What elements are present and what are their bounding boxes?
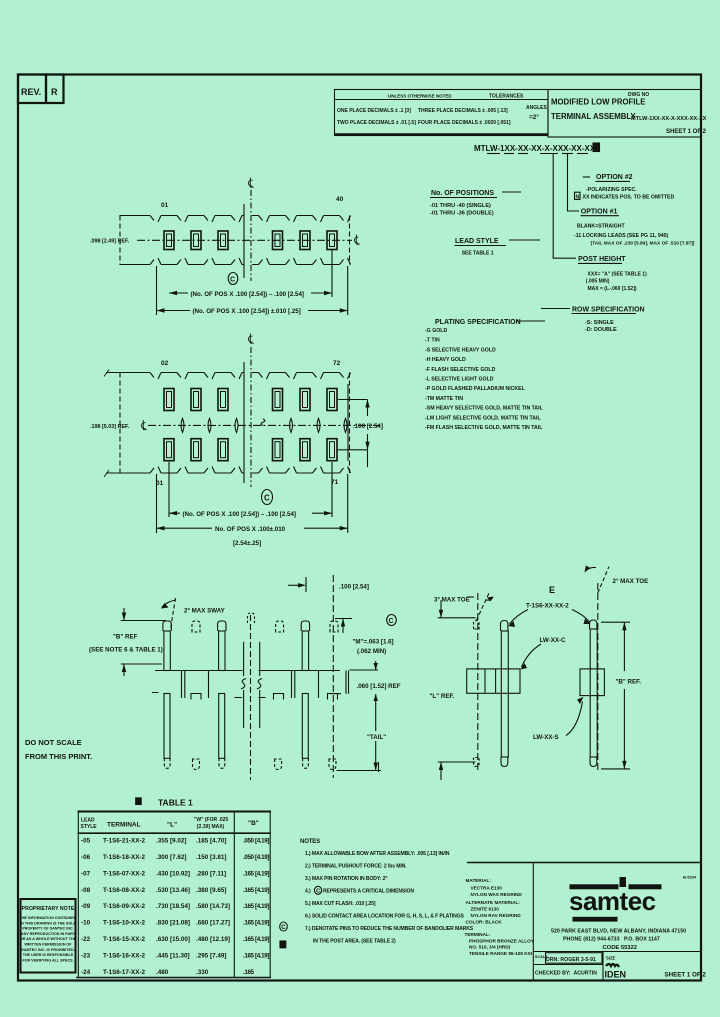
table1 [76, 798, 271, 978]
ident scribble [606, 964, 619, 967]
svg-text:.060 [1.52] REF: .060 [1.52] REF [357, 683, 401, 690]
svg-text:NYLON WAS REGRIND: NYLON WAS REGRIND [471, 892, 523, 897]
centerline symbol right [355, 235, 360, 245]
side view strip [89, 575, 401, 780]
proprietary note box [21, 899, 76, 973]
svg-text:POST HEIGHT: POST HEIGHT [578, 256, 626, 263]
svg-text:DRN: ROGER 3-5-91: DRN: ROGER 3-5-91 [546, 957, 596, 963]
callout circle right [387, 615, 397, 626]
break phantom tip [248, 613, 255, 623]
svg-text:.165: .165 [243, 969, 255, 976]
left body [467, 669, 520, 693]
svg-text:T-1S6-16-XX-2: T-1S6-16-XX-2 [103, 952, 145, 959]
svg-text:ZENITE 6130: ZENITE 6130 [471, 907, 500, 912]
tails phantom tips [193, 759, 337, 770]
svg-text:=2°: =2° [529, 113, 539, 121]
svg-text:"B" REF: "B" REF [113, 634, 138, 641]
svg-text:-08: -08 [81, 887, 91, 894]
svg-text:-01 THRU -36 (DOUBLE): -01 THRU -36 (DOUBLE) [430, 211, 494, 217]
top row pins [164, 389, 337, 411]
svg-text:-TM MATTE TIN: -TM MATTE TIN [425, 396, 463, 402]
centerline horizontal [137, 239, 352, 241]
svg-text:REV.: REV. [21, 87, 41, 97]
svg-text:LEAD: LEAD [81, 818, 95, 824]
svg-text:SIZE: SIZE [606, 956, 616, 961]
svg-text:T-1S6-17-XX-2: T-1S6-17-XX-2 [103, 969, 145, 976]
svg-text:6.) SOLID CONTACT AREA LOCATIO: 6.) SOLID CONTACT AREA LOCATION FOR G, H… [305, 914, 465, 920]
svg-text:VECTRA E130: VECTRA E130 [471, 885, 503, 890]
svg-text:.165 [4.19]: .165 [4.19] [243, 887, 269, 894]
plating callout circle [262, 490, 273, 505]
svg-text:XX INDICATES POS. TO BE OMITTE: XX INDICATES POS. TO BE OMITTED [583, 194, 675, 200]
svg-text:C: C [389, 618, 394, 625]
svg-text:3° MAX TOE: 3° MAX TOE [434, 597, 470, 604]
svg-text:.295 [7.49]: .295 [7.49] [196, 952, 226, 959]
svg-text:XXX= "A" (SEE TABLE 1): XXX= "A" (SEE TABLE 1) [588, 272, 648, 278]
svg-text:.355 [9.02]: .355 [9.02] [156, 838, 186, 845]
svg-text:T-1S6-21-XX-2: T-1S6-21-XX-2 [103, 838, 145, 845]
svg-text:.050 [4.19]: .050 [4.19] [243, 854, 269, 861]
band left/right edges [119, 216, 121, 265]
svg-text:PROPRIETARY NOTE: PROPRIETARY NOTE [22, 906, 75, 912]
svg-text:01: 01 [156, 480, 164, 487]
svg-text:REPRESENTS A CRITICAL DIMENSIO: REPRESENTS A CRITICAL DIMENSION [323, 889, 414, 895]
svg-text:-S SELECTIVE HEAVY GOLD: -S SELECTIVE HEAVY GOLD [425, 347, 496, 353]
svg-text:T-1S6-08-XX-2: T-1S6-08-XX-2 [103, 887, 145, 894]
band left/right edges [119, 373, 121, 474]
part number breakdown [425, 143, 695, 431]
svg-text:.580 [14.73]: .580 [14.73] [196, 903, 230, 910]
svg-text:.165 [4.19]: .165 [4.19] [243, 952, 269, 959]
svg-text:.380 [9.65]: .380 [9.65] [196, 887, 226, 894]
svg-text:C: C [281, 925, 286, 931]
M dim right [335, 618, 352, 620]
svg-text:T-1S6-10-XX-2: T-1S6-10-XX-2 [103, 920, 145, 927]
svg-text:[TAIL MAX OF .230 [5.89], MAX: [TAIL MAX OF .230 [5.89], MAX OF .510 [7… [591, 241, 695, 247]
svg-text:-23: -23 [81, 952, 91, 959]
body hangers and seats [182, 671, 319, 698]
header [81, 817, 259, 830]
table frame [78, 811, 272, 813]
proprietary + do not scale [20, 738, 93, 973]
svg-text:.165 [4.19]: .165 [4.19] [243, 936, 269, 943]
svg-text:MAX = (L-.060 [1.52]): MAX = (L-.060 [1.52]) [588, 286, 637, 292]
svg-text:"L" REF.: "L" REF. [430, 693, 455, 700]
svg-text:OPTION #1: OPTION #1 [581, 208, 618, 215]
circled C in note 4 [314, 886, 321, 894]
L ref dim [438, 617, 476, 619]
svg-text:.445 [11.30]: .445 [11.30] [156, 952, 190, 959]
svg-text:.165 [4.19]: .165 [4.19] [243, 920, 269, 927]
svg-text:-06: -06 [81, 854, 91, 861]
svg-text:No. OF POSITIONS: No. OF POSITIONS [431, 190, 494, 197]
svg-text:R: R [51, 87, 58, 97]
svg-text:.530 [13.46]: .530 [13.46] [156, 887, 190, 894]
view1 top single row [90, 178, 360, 316]
svg-text:.098 [2.49] REF.: .098 [2.49] REF. [90, 239, 130, 245]
band bottom edge [120, 264, 340, 266]
svg-text:THE INFORMATION CONTAINED: THE INFORMATION CONTAINED [20, 916, 77, 920]
svg-text:ONE PLACE DECIMALS ± .1 [3]: ONE PLACE DECIMALS ± .1 [3] [337, 108, 411, 114]
phantom tips on dim [474, 621, 480, 767]
right reference dashed line [332, 575, 334, 778]
svg-text:CHECKED BY: ACURTIN: CHECKED BY: ACURTIN [535, 971, 597, 977]
leader to post height [553, 154, 576, 258]
svg-text:01: 01 [161, 202, 169, 209]
svg-text:-S: SINGLE: -S: SINGLE [585, 320, 614, 326]
svg-text:(.062 MIN): (.062 MIN) [357, 648, 386, 655]
side view pins [430, 566, 649, 781]
svg-text:T-1S6-15-XX-2: T-1S6-15-XX-2 [103, 936, 145, 943]
svg-text:[2.39] MAX): [2.39] MAX) [197, 824, 225, 830]
svg-text:.300 [7.62]: .300 [7.62] [156, 854, 186, 861]
svg-text:.280 [7.11]: .280 [7.11] [196, 870, 226, 877]
svg-text:STYLE: STYLE [81, 824, 98, 830]
svg-text:"B" REF.: "B" REF. [616, 679, 642, 686]
dim1 below [331, 462, 333, 517]
svg-text:7.) DENOTATE PINS TO REDUCE TH: 7.) DENOTATE PINS TO REDUCE THE NUMBER O… [305, 926, 474, 932]
svg-text:-L SELECTIVE LIGHT GOLD: -L SELECTIVE LIGHT GOLD [425, 377, 494, 383]
svg-text:OPTION #2: OPTION #2 [596, 174, 633, 181]
svg-text:ROW SPECIFICATION: ROW SPECIFICATION [572, 307, 645, 314]
svg-text:CODE 55322: CODE 55322 [603, 945, 637, 951]
svg-text:WRITTEN PERMISSION OF: WRITTEN PERMISSION OF [24, 943, 72, 947]
svg-text:UNLESS OTHERWISE NOTED: UNLESS OTHERWISE NOTED [388, 94, 452, 99]
svg-text:PHOSPHOR BRONZE ALLOY: PHOSPHOR BRONZE ALLOY [469, 938, 535, 943]
centerline horizontal [148, 424, 380, 426]
svg-text:.100 [2.54]: .100 [2.54] [339, 583, 369, 590]
dim1 [331, 250, 333, 297]
svg-text:2° MAX SWAY: 2° MAX SWAY [184, 608, 226, 615]
pins [164, 231, 337, 250]
svg-text:NOTES: NOTES [300, 839, 320, 845]
svg-text:5.) MAX CUT FLASH: .010 [.25]: 5.) MAX CUT FLASH: .010 [.25] [305, 901, 376, 907]
view2 dual row [90, 334, 383, 548]
svg-text:.165 [4.19]: .165 [4.19] [243, 870, 269, 877]
svg-text:-H HEAVY GOLD: -H HEAVY GOLD [425, 357, 466, 363]
tolerance box [335, 90, 549, 136]
svg-text:NO. 510, 3/4 (HRD): NO. 510, 3/4 (HRD) [469, 945, 511, 950]
svg-text:TENSILE RANGE 95-105 KSI: TENSILE RANGE 95-105 KSI [469, 951, 532, 956]
svg-text:2° MAX TOE: 2° MAX TOE [613, 578, 649, 585]
svg-text:IN THE POST AREA. (SEE TABLE 2: IN THE POST AREA. (SEE TABLE 2) [313, 939, 396, 945]
svg-text:3.) MAX PIN ROTATION IN BODY:: 3.) MAX PIN ROTATION IN BODY: 2° [305, 876, 387, 882]
svg-text:-D: DOUBLE: -D: DOUBLE [585, 327, 617, 333]
svg-text:OR AS A WHOLE WITHOUT THE: OR AS A WHOLE WITHOUT THE [20, 937, 77, 941]
svg-text:(No. OF POS X .100 [2.54]) – .: (No. OF POS X .100 [2.54]) – .100 [2.54] [191, 291, 304, 298]
svg-text:SHEET 1 OF 2: SHEET 1 OF 2 [666, 129, 707, 135]
svg-text:COLOR: BLACK: COLOR: BLACK [466, 919, 503, 924]
break line [243, 362, 245, 483]
svg-text:-F FLASH SELECTIVE GOLD: -F FLASH SELECTIVE GOLD [425, 367, 496, 373]
svg-text:ALTERNATE MATERIAL:: ALTERNATE MATERIAL: [466, 900, 521, 905]
svg-text:.830 [21.08]: .830 [21.08] [156, 920, 190, 927]
svg-text:E: E [549, 585, 555, 595]
option #2 [583, 176, 590, 178]
svg-text:.680 [17.27]: .680 [17.27] [196, 920, 230, 927]
left pin [501, 621, 508, 632]
circled C flag left of note 7 [280, 922, 288, 931]
svg-text:72: 72 [333, 360, 341, 367]
svg-text:-FM FLASH SELECTIVE GOLD, MATT: -FM FLASH SELECTIVE GOLD, MATTE TIN TAIL [425, 425, 543, 431]
right row-pitch dim [347, 384, 349, 461]
svg-text:-T TIN: -T TIN [425, 338, 440, 344]
svg-text:-LM LIGHT SELECTIVE GOLD, MATT: -LM LIGHT SELECTIVE GOLD, MATTE TIN TAIL [425, 415, 541, 421]
svg-text:PROPERTY OF SAMTEC INC.: PROPERTY OF SAMTEC INC. [22, 927, 73, 931]
svg-text:TERMINAL ASSEMBLY: TERMINAL ASSEMBLY [551, 112, 636, 121]
band bottom edge [106, 472, 340, 474]
svg-text:.480: .480 [156, 969, 169, 976]
svg-text:PLATING SPECIFICATION: PLATING SPECIFICATION [435, 319, 521, 326]
svg-text:-POLARIZING SPEC.: -POLARIZING SPEC. [586, 187, 637, 193]
svg-text:DO NOT SCALE: DO NOT SCALE [25, 738, 82, 747]
B ref dim right [601, 621, 630, 623]
svg-text:-01 THRU -40 (SINGLE): -01 THRU -40 (SINGLE) [430, 203, 491, 209]
notes [280, 839, 474, 948]
svg-text:(No. OF POS X .100 [2.54]) ±.0: (No. OF POS X .100 [2.54]) ±.010 [.25] [193, 308, 301, 315]
tails solid [164, 694, 308, 769]
svg-text:-24: -24 [81, 969, 91, 976]
svg-text:.165 [4.19]: .165 [4.19] [243, 903, 269, 910]
svg-text:ANGLES: ANGLES [526, 105, 548, 111]
left assembly centerline [477, 593, 479, 773]
B ref dim left [121, 620, 166, 622]
svg-text:MODIFIED LOW PROFILE: MODIFIED LOW PROFILE [551, 98, 645, 107]
svg-text:T-1S6-09-XX-2: T-1S6-09-XX-2 [103, 903, 145, 910]
svg-text:PHONE (812) 944-6733 P.O. BO: PHONE (812) 944-6733 P.O. BOX 1147 [563, 937, 660, 943]
material + samtec [465, 863, 707, 981]
bottom row pins [164, 439, 337, 461]
break S symbols [243, 642, 245, 676]
svg-text:TABLE 1: TABLE 1 [158, 798, 193, 808]
svg-text:C: C [264, 494, 270, 503]
dim2 [156, 266, 158, 315]
samtec box [532, 863, 534, 981]
svg-text:TERMINAL: TERMINAL [107, 822, 141, 829]
svg-text:.100 [2.54]: .100 [2.54] [353, 423, 383, 430]
lens marks on centerline [181, 418, 347, 432]
svg-text:"TAIL": "TAIL" [367, 734, 386, 741]
svg-text:THREE PLACE DECIMALS ± .005 [.: THREE PLACE DECIMALS ± .005 [.13] [418, 108, 508, 114]
svg-text:.150 [3.81]: .150 [3.81] [196, 854, 226, 861]
svg-text:IN THIS DRAWING IS THE SOLE: IN THIS DRAWING IS THE SOLE [20, 921, 76, 925]
svg-text:TWO PLACE DECIMALS ± .01 [.5]: TWO PLACE DECIMALS ± .01 [.5] [337, 120, 416, 126]
svg-text:FROM THIS PRINT.: FROM THIS PRINT. [25, 752, 92, 761]
svg-text:-05: -05 [81, 838, 91, 845]
svg-text:.198 [5.03] REF.: .198 [5.03] REF. [90, 424, 130, 430]
right assembly centerline [597, 583, 599, 773]
svg-text:1.) MAX ALLOWABLE BOW AFTER AS: 1.) MAX ALLOWABLE BOW AFTER ASSEMBLY: .0… [305, 851, 450, 857]
rev box [18, 75, 64, 104]
centerline symbol top [249, 334, 254, 344]
svg-text:.430 [10.92]: .430 [10.92] [156, 870, 190, 877]
svg-text:T-1S6-18-XX-2: T-1S6-18-XX-2 [103, 854, 145, 861]
svg-text:-09: -09 [81, 903, 91, 910]
svg-text:TERMINAL:: TERMINAL: [465, 932, 491, 937]
material list [465, 878, 535, 956]
svg-text:-07: -07 [81, 870, 91, 877]
svg-text:-P GOLD FLASHED PALLADIUM NICK: -P GOLD FLASHED PALLADIUM NICKEL [425, 386, 526, 392]
svg-text:.630 [15.00]: .630 [15.00] [156, 936, 190, 943]
plating callout circle [228, 273, 238, 285]
svg-text:SEE TABLE 1: SEE TABLE 1 [462, 251, 494, 257]
svg-text:[2.54±.25]: [2.54±.25] [233, 540, 261, 547]
svg-text:SAMTEC INC. IS PROHIBITED.: SAMTEC INC. IS PROHIBITED. [21, 948, 74, 952]
svg-text:4.): 4.) [305, 889, 311, 895]
svg-text:LEAD STYLE: LEAD STYLE [455, 238, 499, 245]
svg-text:B-5294: B-5294 [683, 875, 697, 880]
svg-text:MTLW-1XX-XX-X-XXX-XX-XX: MTLW-1XX-XX-X-XXX-XX-XX [631, 116, 707, 122]
svg-text:"L": "L" [167, 822, 177, 829]
svg-text:(.005 MIN): (.005 MIN) [586, 279, 610, 285]
svg-text:FOR VERIFYING ALL SPECS.: FOR VERIFYING ALL SPECS. [22, 958, 73, 962]
svg-text:samtec: samtec [569, 886, 656, 916]
title header block [335, 90, 707, 138]
svg-text:C: C [230, 277, 235, 284]
title box [548, 90, 701, 138]
svg-text:.050 [4.19]: .050 [4.19] [243, 838, 269, 845]
svg-text:.730 [18.54]: .730 [18.54] [156, 903, 190, 910]
svg-text:MATERIAL:: MATERIAL: [466, 878, 492, 883]
svg-text:.185 [4.70]: .185 [4.70] [196, 838, 226, 845]
svg-text:-G GOLD: -G GOLD [425, 328, 447, 334]
row specification [541, 308, 570, 310]
svg-text:DWG NO: DWG NO [628, 92, 649, 98]
svg-text:MTLW-1XX-XX-XX-X-XXX-XX-XX: MTLW-1XX-XX-XX-X-XXX-XX-XX [474, 144, 596, 153]
svg-text:IDEN: IDEN [605, 970, 627, 980]
svg-text:(No. OF POS X .100 [2.54]) – .: (No. OF POS X .100 [2.54]) – .100 [2.54] [183, 511, 296, 518]
svg-text:-10: -10 [81, 920, 91, 927]
svg-text:TOLERANCES: TOLERANCES [489, 94, 524, 100]
posts up phantom [192, 621, 338, 632]
svg-text:"B": "B" [248, 820, 259, 827]
svg-text:"W" (FOR .025: "W" (FOR .025 [194, 817, 228, 823]
svg-text:.480 [12.19]: .480 [12.19] [196, 936, 230, 943]
svg-text:(SEE NOTE 6 & TABLE 1): (SEE NOTE 6 & TABLE 1) [89, 647, 163, 654]
svg-text:.330: .330 [196, 969, 209, 976]
leader to option1 [568, 154, 580, 211]
centerline symbol top [249, 178, 254, 188]
svg-text:NYLON RAV REGRIND: NYLON RAV REGRIND [471, 913, 522, 918]
svg-text:-22: -22 [81, 936, 91, 943]
right pin [590, 620, 597, 629]
black square flag left of note 7 cont [280, 941, 286, 948]
svg-text:T-1S6-07-XX-2: T-1S6-07-XX-2 [103, 870, 145, 877]
break lines [243, 204, 245, 278]
right body [580, 669, 604, 696]
svg-text:40: 40 [336, 196, 344, 203]
pitch dim top [305, 577, 307, 592]
svg-text:LW-XX-S: LW-XX-S [533, 734, 559, 741]
svg-text:No. OF POS X .100±.010: No. OF POS X .100±.010 [215, 526, 286, 533]
rows [81, 838, 269, 976]
svg-text:T-1S6-XX-XX-2: T-1S6-XX-XX-2 [526, 603, 569, 610]
svg-text:ANY REPRODUCTION IN PART: ANY REPRODUCTION IN PART [21, 932, 76, 936]
svg-text:02: 02 [161, 360, 169, 367]
body top line [155, 670, 243, 672]
svg-text:"M"=.063 [1.6]: "M"=.063 [1.6] [353, 639, 394, 646]
svg-text:BLANK=STRAIGHT: BLANK=STRAIGHT [577, 224, 626, 230]
band top edge [106, 372, 340, 374]
svg-text:-11 LOCKING LEADS (SEE PG 11,: -11 LOCKING LEADS (SEE PG 11, 940) [574, 233, 669, 239]
svg-text:2.) TERMINAL PUSHOUT FORCE: 2: 2.) TERMINAL PUSHOUT FORCE: 2 lbs MIN. [305, 864, 407, 870]
svg-text:THE USER IS RESPONSIBLE: THE USER IS RESPONSIBLE [23, 953, 74, 957]
svg-text:N: N [576, 194, 580, 200]
svg-text:LW-XX-C: LW-XX-C [540, 637, 567, 644]
svg-text:-SM HEAVY SELECTIVE GOLD, MATT: -SM HEAVY SELECTIVE GOLD, MATTE TIN TAIL [425, 406, 544, 412]
svg-text:SHEET 1 OF 2: SHEET 1 OF 2 [665, 972, 707, 979]
dim2 below [156, 474, 158, 533]
svg-text:FOUR PLACE DECIMALS ± .0020 [.: FOUR PLACE DECIMALS ± .0020 [.051] [418, 120, 511, 126]
svg-text:520 PARK EAST BLVD, NEW ALBANY: 520 PARK EAST BLVD, NEW ALBANY, INDIANA … [551, 929, 686, 935]
posts up solid [163, 621, 310, 671]
band top edge [120, 215, 351, 217]
samtec logo [569, 877, 662, 922]
